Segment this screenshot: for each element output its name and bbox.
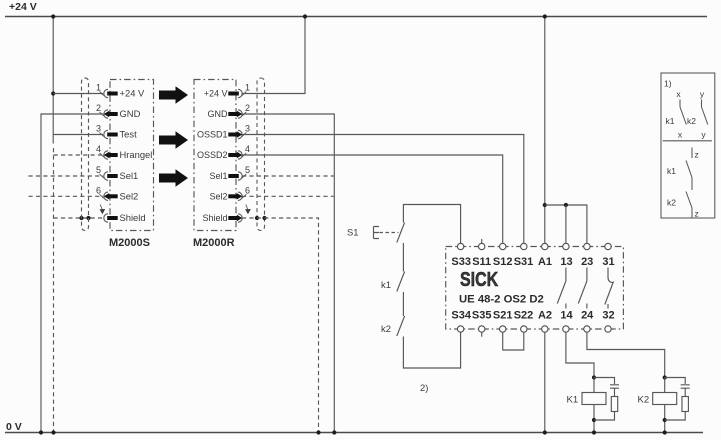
- svg-text:GND: GND: [120, 108, 141, 119]
- svg-text:5: 5: [96, 165, 101, 175]
- svg-text:SICK: SICK: [460, 268, 498, 290]
- terminal circles bottom: [457, 326, 611, 332]
- svg-text:K2: K2: [638, 395, 650, 406]
- junction dot at rail: [303, 14, 307, 18]
- pin 4 M2000S Hrangel: [96, 144, 152, 160]
- pin 6 M2000R Sel2: [209, 185, 250, 201]
- wire k1 to k2: [402, 292, 404, 316]
- junction dot shield-sheath right2: [262, 216, 266, 220]
- junction dot shield-sheath left2: [86, 216, 90, 220]
- svg-text:2: 2: [245, 103, 250, 113]
- pin 2 M2000R GND: [208, 103, 251, 119]
- svg-text:3: 3: [245, 124, 250, 134]
- svg-text:z: z: [695, 209, 699, 219]
- junction dot A1 branch: [543, 203, 547, 207]
- legend divider: [663, 140, 712, 142]
- wire 14 to K1: [566, 332, 594, 377]
- svg-text:2: 2: [96, 103, 101, 113]
- relay K2 assembly: [638, 375, 690, 434]
- wire S33 branch top: [403, 205, 460, 244]
- svg-text:+24 V: +24 V: [120, 88, 146, 99]
- pin 3 M2000S Test: [96, 124, 137, 140]
- wire down to 13: [565, 205, 567, 243]
- svg-text:S12: S12: [493, 256, 513, 268]
- legend note 1) box: [661, 73, 715, 219]
- svg-text:4: 4: [245, 144, 250, 154]
- pin 1 M2000R +24V: [204, 83, 250, 99]
- pin 2 M2000S GND: [96, 103, 141, 119]
- junction dot shield-sheath left: [79, 216, 83, 220]
- pin 3 M2000R OSSD1: [197, 124, 250, 140]
- arrow sender-to-receiver 1: [159, 86, 188, 103]
- svg-text:2): 2): [420, 382, 428, 393]
- svg-text:Test: Test: [120, 129, 138, 140]
- svg-text:y: y: [700, 89, 705, 99]
- svg-text:k2: k2: [687, 116, 696, 126]
- junction dot shield-sheath right: [255, 216, 259, 220]
- pin 7 M2000R Shield: [202, 205, 250, 224]
- wire 24 to K2: [587, 332, 665, 377]
- contact k1 blade: [397, 272, 405, 292]
- terminal labels top row: [451, 256, 614, 268]
- wire k2 to S34: [403, 332, 460, 368]
- wire A1 to 13 and 23: [545, 205, 587, 243]
- svg-text:+24 V: +24 V: [9, 1, 37, 13]
- pin 7 M2000S Shield: [100, 205, 146, 224]
- wire to M2000S pin1: [53, 93, 103, 95]
- switch S1 blade: [397, 223, 405, 243]
- svg-text:GND: GND: [208, 109, 229, 119]
- svg-text:y: y: [701, 130, 706, 140]
- wire A1 feed from rail: [544, 17, 546, 244]
- wire OSSD2 to S12: [242, 155, 503, 243]
- terminal circles top: [457, 243, 611, 249]
- wire dashed shield drain right: [242, 218, 319, 433]
- svg-text:6: 6: [245, 185, 250, 195]
- legend contact k1: [666, 89, 687, 140]
- svg-text:k2: k2: [667, 198, 676, 208]
- wire dashed Shield: [54, 217, 104, 219]
- svg-text:OSSD1: OSSD1: [197, 130, 228, 140]
- svg-text:Sel2: Sel2: [120, 191, 139, 202]
- pin 5 M2000R Sel1: [209, 165, 250, 181]
- svg-text:k1: k1: [667, 166, 676, 176]
- junction dot A2 at 0V rail: [543, 430, 547, 434]
- contact 31-32: [605, 268, 614, 309]
- wire M2000R GND to 0V: [242, 114, 334, 433]
- wire dashed Sel2 right: [242, 195, 334, 197]
- wire M2000S GND to 0V: [41, 114, 103, 433]
- wire +24V top rail: [5, 16, 707, 18]
- terminal labels bottom row: [451, 310, 614, 322]
- svg-text:Shield: Shield: [202, 213, 227, 223]
- svg-text:23: 23: [581, 256, 593, 268]
- op module UE48-2 box: [446, 247, 624, 330]
- junction dot at 13: [564, 203, 568, 207]
- junction dot GND at 0V rail: [39, 430, 43, 434]
- svg-text:k1: k1: [666, 116, 675, 126]
- svg-text:13: 13: [560, 256, 572, 268]
- svg-text:31: 31: [602, 256, 614, 268]
- wire S1 to k1: [402, 243, 404, 272]
- svg-text:S1: S1: [347, 227, 358, 238]
- wire S11 stub: [481, 239, 483, 243]
- svg-text:14: 14: [560, 310, 573, 322]
- svg-text:S22: S22: [514, 310, 534, 322]
- svg-text:k1: k1: [381, 279, 391, 290]
- svg-text:Sel1: Sel1: [120, 170, 139, 181]
- svg-text:A2: A2: [538, 310, 552, 322]
- pin 1 M2000S +24V: [96, 83, 145, 99]
- contact 13-14: [557, 268, 566, 309]
- svg-text:S35: S35: [472, 310, 492, 322]
- svg-text:S33: S33: [451, 256, 471, 268]
- svg-text:M2000S: M2000S: [109, 237, 150, 249]
- pin 4 M2000R OSSD2: [197, 144, 250, 160]
- wire dashed Sel2 stub: [29, 195, 104, 197]
- cable sheath left (dashed oval): [82, 78, 89, 231]
- wire S21-S22 loop: [503, 332, 524, 350]
- wire dashed Hrangel: [54, 154, 104, 156]
- svg-text:5: 5: [245, 165, 250, 175]
- svg-text:1): 1): [664, 79, 672, 89]
- wire M2000R +24V to rail: [242, 17, 305, 94]
- wire 0V bottom rail: [5, 432, 703, 434]
- svg-text:24: 24: [581, 310, 594, 322]
- relay K1 assembly: [567, 375, 620, 434]
- svg-text:S31: S31: [514, 256, 534, 268]
- svg-text:M2000R: M2000R: [193, 237, 235, 249]
- wire +24V drop to M2000S pin1/Test: [52, 17, 54, 144]
- wire OSSD1 to S31: [242, 135, 524, 244]
- junction dot pin1 tap: [51, 91, 55, 95]
- svg-text:3: 3: [96, 124, 101, 134]
- svg-text:x: x: [678, 130, 683, 140]
- cable sheath right (dashed oval): [257, 78, 265, 231]
- svg-text:Sel2: Sel2: [209, 192, 227, 202]
- legend series chain k1 k2: [667, 148, 699, 219]
- connector M2000S box: [110, 80, 154, 231]
- switch S1 actuator: [374, 227, 380, 239]
- switch S1 actuator dashed link: [380, 232, 399, 234]
- svg-text:1: 1: [245, 83, 250, 93]
- svg-text:S34: S34: [451, 310, 471, 322]
- arrow sender-to-receiver 2: [159, 131, 188, 148]
- svg-text:1: 1: [96, 83, 101, 93]
- svg-text:K1: K1: [567, 395, 579, 406]
- relay UE48 module: [446, 239, 690, 435]
- svg-text:Sel1: Sel1: [209, 171, 227, 181]
- wire A2 to 0V: [544, 332, 546, 432]
- svg-text:x: x: [676, 89, 681, 99]
- junction dot A1 at rail: [543, 14, 547, 18]
- pin 5 M2000S Sel1: [96, 165, 138, 181]
- wire dashed Sel1 stub: [29, 175, 104, 177]
- svg-text:Shield: Shield: [120, 212, 146, 223]
- svg-text:z: z: [695, 150, 699, 160]
- junction dot GND right at 0V rail: [332, 430, 336, 434]
- arrow sender-to-receiver 3: [159, 169, 188, 186]
- svg-text:UE 48-2 OS2 D2: UE 48-2 OS2 D2: [459, 294, 544, 306]
- wire to M2000S pin3 Test: [53, 134, 103, 136]
- svg-text:32: 32: [602, 310, 614, 322]
- svg-text:OSSD2: OSSD2: [197, 150, 228, 160]
- legend contact k2: [687, 89, 708, 140]
- svg-text:Hrangel: Hrangel: [120, 149, 153, 160]
- junction dot on +24V rail: [51, 14, 55, 18]
- wire dashed Sel1 right: [242, 175, 334, 177]
- svg-text:6: 6: [96, 185, 101, 195]
- svg-text:0 V: 0 V: [6, 421, 22, 433]
- wire S35 stub: [481, 332, 483, 337]
- connector M2000R box: [194, 80, 236, 231]
- wire dashed drain to 0V: [53, 148, 55, 433]
- pin 6 M2000S Sel2: [96, 185, 138, 201]
- svg-text:A1: A1: [538, 256, 552, 268]
- svg-text:4: 4: [96, 144, 101, 154]
- svg-text:S21: S21: [493, 310, 513, 322]
- junction dot drain at 0V rail: [51, 430, 55, 434]
- svg-text:+24 V: +24 V: [204, 89, 228, 99]
- svg-text:S11: S11: [472, 256, 491, 268]
- contact k2 blade: [397, 316, 405, 336]
- svg-text:k2: k2: [381, 323, 391, 334]
- contact 23-24: [578, 268, 587, 309]
- junction dot shield drain at 0V rail: [316, 430, 320, 434]
